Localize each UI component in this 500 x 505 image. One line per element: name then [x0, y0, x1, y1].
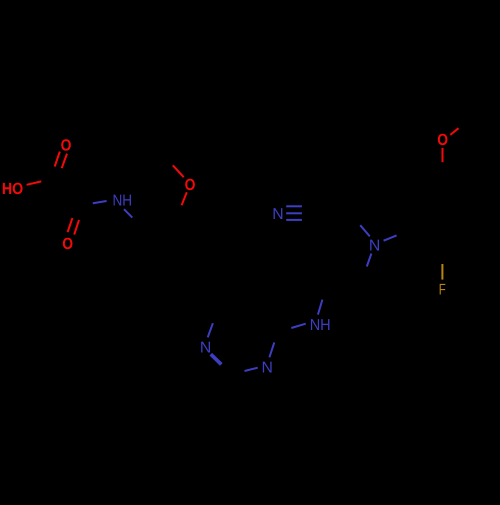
svg-text:N: N [272, 206, 283, 223]
bond N3-C7a (N half, up-right) [384, 235, 397, 240]
bond O5-CH3 (O half) [450, 128, 458, 135]
bond O2-C1 [27, 181, 42, 184]
bond F1-C7 (F half) [441, 264, 443, 280]
svg-text:N: N [261, 360, 272, 377]
svg-text:N: N [369, 237, 380, 254]
bond N4-C6 pyrimidine (N half, up) [208, 323, 213, 337]
svg-text:N: N [200, 339, 211, 356]
bond N4=C2 pyrimidine double bond line 1 [210, 355, 221, 365]
bond C2-N5 pyrimidine (N half) [245, 368, 258, 371]
bond N5-C4 pyrimidine (N half, up) [269, 342, 274, 357]
bond N4=C2 pyrimidine double bond line 2 [211, 354, 222, 364]
bond C1=O1 double bond line 2 [62, 154, 67, 169]
bond C2=O3 double bond line 2 [74, 220, 79, 235]
svg-text:O: O [185, 176, 196, 194]
wire C-C skeleton (carbon bonds, black on black) [57, 173, 470, 330]
svg-text:O: O [61, 136, 72, 154]
bond N3-C2' (N half, up-left) [360, 225, 370, 236]
bond N3-CH2 chain (N half, down-left) [367, 254, 372, 267]
bond N2#C triple bond line 1 [286, 205, 302, 207]
svg-text:O: O [437, 131, 448, 149]
bond N6-CH2 chain (N half, up) [318, 300, 323, 315]
bond O4-CH3 (O half) [173, 165, 184, 177]
bond C2=O3 double bond line 1 [68, 218, 73, 232]
bond N2#C triple bond line 2 [286, 212, 302, 214]
bond N6-C4 (N half, down-left) [291, 324, 305, 328]
svg-text:HO: HO [2, 180, 23, 198]
bond C1=O1 double bond line 1 [55, 152, 60, 167]
svg-text:O: O [62, 235, 73, 253]
svg-text:F: F [439, 281, 446, 298]
bond O4-ring (O half) [182, 192, 187, 205]
bond N1-C3 (NH to ring carbon, N half) [124, 209, 132, 217]
bond N2#C triple bond line 3 [286, 219, 302, 221]
svg-text:NH: NH [113, 192, 133, 209]
svg-text:NH: NH [310, 317, 331, 334]
bond O5-ring C4 (O half) [442, 148, 444, 162]
bond C2-N1 (amide C to NH, N half) [93, 201, 107, 203]
